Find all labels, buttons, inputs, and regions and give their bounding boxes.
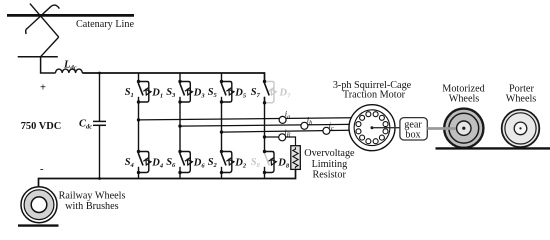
switch S1 <box>125 80 163 104</box>
current sensor ia <box>279 116 286 123</box>
svg-text:Traction Motor: Traction Motor <box>343 89 406 100</box>
node phase a + wire to motor <box>137 118 140 121</box>
svg-text:Resistor: Resistor <box>312 170 346 181</box>
leg2 vertical segments <box>179 73 181 179</box>
svg-text:Catenary Line: Catenary Line <box>76 19 134 30</box>
motorized wheel <box>444 109 483 148</box>
gear box <box>400 118 427 140</box>
svg-text:box: box <box>405 129 420 140</box>
node phase c + wire to motor <box>220 130 223 133</box>
railway wheel with brushes <box>21 187 57 223</box>
porter wheel <box>502 110 540 148</box>
switch S7 (diode D7 greyed) <box>251 80 291 105</box>
wire pantograph to dc bus <box>41 57 56 73</box>
resistor R overvoltage <box>291 146 301 170</box>
svg-text:-: - <box>40 164 44 175</box>
switch S6 <box>166 150 205 174</box>
motorized wheel hub <box>457 121 471 135</box>
current sensor ib <box>301 122 308 129</box>
pantograph contact bar with horns <box>26 5 60 34</box>
motor M outer <box>349 105 395 151</box>
rail under wheels <box>436 147 550 149</box>
inductor Ldc <box>56 69 83 73</box>
svg-text:Limiting: Limiting <box>312 159 348 170</box>
svg-text:+: + <box>40 82 46 93</box>
switch S8 (switch greyed, diode D8 dark) <box>251 150 290 174</box>
capacitor Cdc <box>99 73 101 121</box>
current sensor ic <box>323 127 330 134</box>
node chopper + wire to resistor <box>263 135 266 138</box>
svg-text:Wheels: Wheels <box>506 94 537 105</box>
svg-text:with Brushes: with Brushes <box>65 201 119 212</box>
switch S2 <box>208 150 247 174</box>
svg-text:Wheels: Wheels <box>449 94 480 105</box>
wire top dc rail <box>82 73 264 82</box>
svg-text:750 VDC: 750 VDC <box>21 121 62 132</box>
pantograph base bar <box>18 56 58 58</box>
switch S5 <box>208 80 247 104</box>
motor shaft <box>371 126 374 129</box>
pantograph lower arm <box>41 37 59 57</box>
pantograph upper arm <box>30 4 59 38</box>
svg-text:Railway Wheels: Railway Wheels <box>59 191 126 202</box>
switch S4 <box>125 150 164 174</box>
rail under railway wheel <box>18 224 59 226</box>
catenary wire <box>7 14 134 17</box>
wire bottom dc rail <box>39 169 296 187</box>
node phase b + wire to motor <box>178 124 181 127</box>
switch S3 <box>166 80 205 104</box>
shaft gearbox to wheel <box>427 127 463 130</box>
motor rotor bars <box>356 112 388 144</box>
leg1 vertical segments <box>138 73 140 179</box>
leg4 vertical segments <box>264 97 266 179</box>
leg3 vertical segments <box>221 73 223 179</box>
svg-text:Overvoltage: Overvoltage <box>304 148 355 159</box>
current sensor iR <box>279 134 286 141</box>
